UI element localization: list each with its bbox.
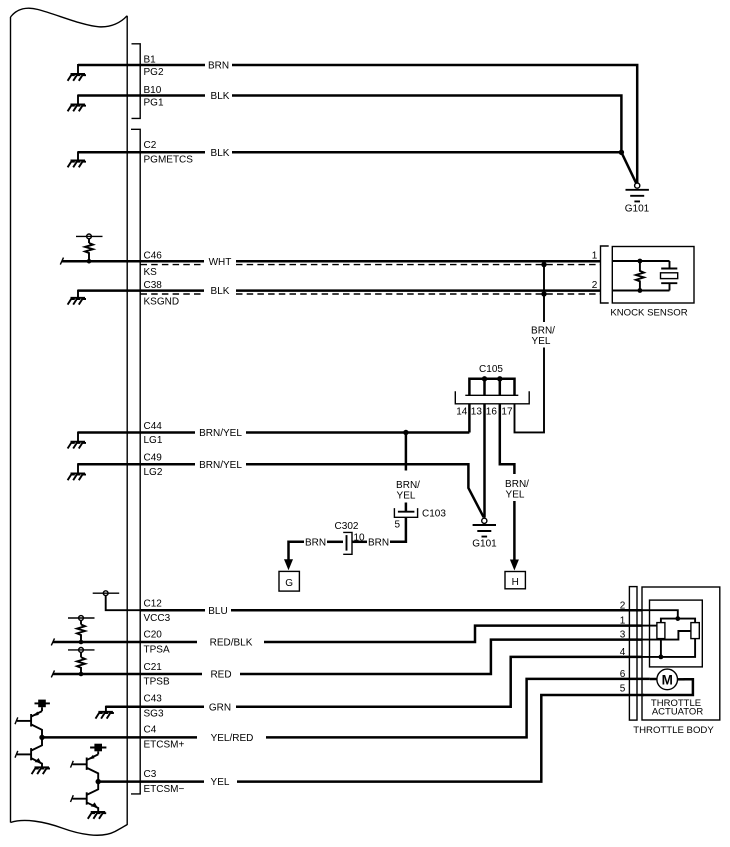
ground (inside ECM) for pin B10 [68,95,141,112]
svg-text:BRN: BRN [368,537,389,548]
svg-text:BLU: BLU [208,606,227,617]
wire C44 BRN/YEL to C105 pin 14 [140,428,469,439]
C105 pin numbers 14 13 16 17 [456,407,513,418]
svg-text:PG2: PG2 [144,67,164,78]
svg-text:M: M [662,672,673,687]
wire C2 BLK [140,148,621,159]
svg-text:2: 2 [620,600,626,611]
wire C105 pin 13 down to G101 [483,404,486,518]
svg-text:C4: C4 [144,724,157,735]
svg-text:C44: C44 [144,421,163,432]
junction node ETCSM+ [39,735,44,740]
svg-text:YEL/RED: YEL/RED [211,733,254,744]
wire BRN from C302 left to G [289,537,344,560]
svg-text:PG1: PG1 [144,97,164,108]
throttle body box [642,587,720,720]
knock sensor internal resistor [636,259,644,293]
svg-text:C20: C20 [144,630,163,641]
svg-text:WHT: WHT [209,257,232,268]
svg-text:C21: C21 [144,662,163,673]
svg-text:RED: RED [210,670,231,681]
svg-text:G: G [285,578,293,589]
svg-text:KSGND: KSGND [144,296,180,307]
svg-text:13: 13 [471,407,483,418]
throttle motor M [650,669,685,690]
TPS top rail [661,619,695,623]
svg-text:10: 10 [354,533,366,544]
svg-text:BLK: BLK [211,148,230,159]
connector bracket B (pins B1,B10) [132,44,141,119]
connector bracket C (pins C2..C3) [131,129,140,794]
terminal box G [279,571,299,591]
node C4 labels [144,724,185,750]
wire C43 GRN to throttle body pin 4 [140,657,642,713]
ground (inside ECM) for pin C2 [68,151,141,167]
transistor Q2 (NPN, ETCSM+ low side) [15,737,50,774]
wire C4 YEL/RED to throttle body pin 6 [42,679,650,744]
svg-text:17: 17 [501,407,513,418]
svg-text:G101: G101 [625,204,650,215]
C105 bus bar joining pins 13,14,16,17 [469,376,514,395]
svg-text:TPSA: TPSA [144,645,170,656]
connector C103 (male bar over female cup), pin 5 [394,508,446,530]
pull-up resistor inside ECM for pin C20 [51,616,140,646]
svg-text:H: H [512,577,519,588]
throttle body pin numbers [620,600,626,694]
svg-text:C43: C43 [144,694,163,705]
wire C49 BRN/YEL to G101 [140,460,484,518]
node C3 labels [144,769,185,795]
svg-text:ETCSM+: ETCSM+ [144,740,185,751]
transistor Q1 (PNP, ETCSM+ high side) [15,711,42,737]
knock sensor box [612,247,694,304]
svg-text:YEL: YEL [506,490,525,501]
knock sensor connector bracket, pins 1 and 2 [592,246,609,303]
signal ground inside ECM for pin C43 [96,706,141,719]
wire junction to G101 [621,152,636,183]
arrowhead into G [284,559,293,570]
TPS pin 1 tap [642,625,657,627]
transistor Q3 (PNP, ETCSM- high side) [71,754,99,781]
svg-text:C2: C2 [144,140,157,151]
svg-text:6: 6 [620,669,626,680]
ground G101 (top right) [625,183,650,215]
connector C302 (female cup + male pin), cavity 10 [343,532,365,554]
svg-text:ACTUATOR: ACTUATOR [652,707,704,718]
svg-text:BRN/YEL: BRN/YEL [199,428,242,439]
knock sensor internal top wire [612,260,669,262]
wire C105 pin 14 down to LG1 wire [468,404,471,433]
shield (dashed) of C38 wire [141,293,601,295]
svg-text:TPSB: TPSB [144,677,170,688]
pull-up resistor inside ECM for pin C21 [51,648,140,678]
svg-text:C103: C103 [422,509,446,520]
shield drain junction on C46 shield [541,262,546,267]
shield drain wire BRN/YEL down to C105 pin 17 [515,265,556,433]
ground (inside ECM) for pin C44 [68,432,141,449]
svg-text:BRN/: BRN/ [531,326,555,337]
wire C3 YEL to throttle body pin 5 [98,679,693,788]
arrowhead into H [510,560,519,571]
node B10 labels [144,85,164,109]
ground (inside ECM) for pin C38 [68,290,141,305]
node B1 labels [144,54,164,77]
node C43 labels [144,694,164,720]
node C38 labels [144,280,180,307]
wire C12 BLU to throttle body pin 2 [140,606,642,617]
driver supply square for transistors Q3/Q4 [90,744,106,755]
svg-text:C12: C12 [144,599,163,610]
node C2 labels [144,140,194,166]
svg-text:BRN/YEL: BRN/YEL [199,460,242,471]
wire C38 BLK to knock sensor [140,286,600,297]
svg-text:3: 3 [620,630,626,641]
TPS pin 2 feed to top rail [642,610,678,618]
svg-text:KS: KS [144,267,158,278]
TPS left resistor [657,623,665,639]
node C44 labels [144,421,163,446]
svg-text:5: 5 [395,520,401,531]
ECM module torn-edge strip outline [11,8,128,835]
junction on LG1 wire [403,430,408,435]
wire B10 BLK [140,91,621,151]
connector C105 housing [455,391,529,404]
wire BRN from C103 down then left [352,517,406,548]
svg-text:G101: G101 [472,539,497,550]
svg-text:BRN/: BRN/ [505,479,529,490]
junction node ETCSM- [96,779,101,784]
svg-text:BRN: BRN [208,61,229,72]
node C20 labels [144,630,170,656]
svg-text:YEL: YEL [211,777,230,788]
svg-text:BRN: BRN [305,537,326,548]
svg-text:YEL: YEL [397,490,416,501]
svg-text:4: 4 [620,647,626,658]
svg-text:1: 1 [620,616,626,627]
ground G101 (center) [472,518,497,549]
throttle body connector strip [629,587,637,721]
shield drain junction on C38 shield [541,291,546,296]
svg-text:GRN: GRN [209,702,231,713]
throttle actuator caption [651,698,703,718]
svg-text:LG2: LG2 [144,467,163,478]
junction C2/B10 [619,150,624,155]
wire C20 RED/BLK to throttle body pin 1 [140,626,642,649]
svg-text:16: 16 [486,407,498,418]
svg-text:5: 5 [620,684,626,695]
svg-text:BLK: BLK [211,286,230,297]
knock sensor piezo element [661,261,678,291]
svg-text:LG1: LG1 [144,435,163,446]
svg-text:C49: C49 [144,453,163,464]
left resistor leg to bottom rail [660,639,662,657]
svg-text:RED/BLK: RED/BLK [210,638,253,649]
wire BRN/YEL from LG1 junction down to C103 [396,433,420,512]
svg-text:1: 1 [592,250,598,261]
ground (inside ECM) for pin C49 [68,463,141,480]
svg-text:SG3: SG3 [144,709,164,720]
svg-text:C302: C302 [335,521,359,532]
TPS right resistor [691,623,699,639]
wire C105 pin 16 down then right, BRN/YEL to H [500,404,529,561]
svg-text:YEL: YEL [532,336,551,347]
junction on bottom rail [659,655,664,660]
junction on top rail [675,616,680,621]
svg-text:BLK: BLK [211,91,230,102]
svg-text:PGMETCS: PGMETCS [144,155,194,166]
node C46 labels [144,251,163,278]
svg-text:KNOCK SENSOR: KNOCK SENSOR [610,308,687,319]
svg-text:C3: C3 [144,769,157,780]
pull-up resistor to VCC inside ECM for pin C46 [60,234,140,265]
svg-text:THROTTLE BODY: THROTTLE BODY [633,725,714,736]
node C49 labels [144,453,163,478]
svg-text:C105: C105 [479,364,503,375]
throttle position sensor inner box [650,600,703,667]
terminal box H [505,572,525,589]
node C21 labels [144,662,170,688]
VCC supply symbol inside ECM for pin C12 [93,591,141,610]
ground (inside ECM) for pin B1 [68,64,141,81]
knock sensor internal bottom wire [612,290,669,292]
svg-text:14: 14 [456,407,468,418]
svg-text:VCC3: VCC3 [144,613,171,624]
TPS bottom rail [642,639,695,657]
svg-text:ETCSM−: ETCSM− [144,784,185,795]
wire C46 WHT to knock sensor [140,257,600,268]
wire C21 RED to throttle body pin 3 [140,640,642,681]
wire B1 BRN to G101 [140,61,637,183]
node C12 labels [144,599,171,625]
svg-text:BRN/: BRN/ [396,480,420,491]
TPS pin 3 tap to right resistor [642,631,691,640]
shield (dashed) of C46 wire [141,264,601,266]
svg-text:2: 2 [592,280,598,291]
driver supply square for transistors Q1/Q2 [35,700,50,712]
transistor Q4 (NPN, ETCSM- low side) [71,782,107,819]
